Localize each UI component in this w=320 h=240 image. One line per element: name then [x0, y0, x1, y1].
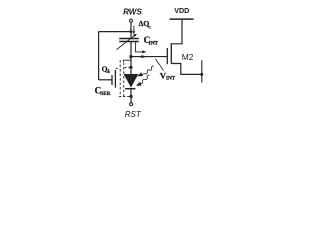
svg-text:SER: SER — [100, 91, 110, 97]
transistor M2 — [167, 20, 202, 75]
wire pointer to V_INT — [155, 59, 163, 71]
svg-text:INT: INT — [149, 41, 159, 47]
power VDD rail — [170, 18, 194, 20]
svg-text:INT: INT — [166, 76, 176, 82]
svg-text:RST: RST — [125, 110, 142, 119]
Q_delta label — [102, 64, 111, 75]
svg-text:δ: δ — [107, 70, 110, 75]
dQc label — [139, 19, 152, 30]
wire photodiode cathode down to RST — [130, 89, 132, 103]
wire bottom-left horizontal to C_SER — [99, 79, 112, 81]
svg-text:M2: M2 — [182, 52, 194, 62]
photodiode D (filled triangle + cathode bar) — [124, 74, 139, 89]
capacitor C_INT (variable, arrow through) — [117, 34, 139, 50]
svg-text:c: c — [148, 24, 151, 30]
capacitor C_SER — [112, 70, 115, 88]
arrow dQc (down, beside wire) — [133, 26, 136, 35]
wire top horizontal from left column to RWS line — [99, 31, 131, 33]
node RST terminal — [130, 103, 133, 106]
wire main vertical from C_INT down to photodiode — [130, 42, 132, 76]
junction at RWS line and top wire — [130, 30, 133, 33]
wire left column vertical — [98, 32, 100, 80]
C_SER label — [95, 85, 111, 97]
wire to M2 gate — [131, 56, 167, 58]
junction cathode / dashed source node — [130, 95, 133, 98]
C_INT label — [144, 35, 159, 46]
junction gate-wire node — [129, 55, 132, 58]
svg-text:VDD: VDD — [174, 6, 189, 15]
junction column node — [200, 73, 203, 76]
svg-text:RWS: RWS — [123, 8, 142, 17]
wire output column — [201, 60, 203, 82]
V_INT label — [160, 70, 176, 81]
transistor M1 (dashed, parallel with photodiode) — [116, 60, 131, 97]
arrow charge flow out of C_INT (L-shaped) — [135, 42, 146, 53]
junction photodiode anode node — [129, 66, 132, 69]
node RWS terminal — [130, 19, 133, 22]
wire RWS vertical down to C_INT top plate — [130, 22, 132, 38]
arrow on gate wire — [141, 55, 147, 58]
light arrows (photon squiggles) — [136, 66, 154, 86]
